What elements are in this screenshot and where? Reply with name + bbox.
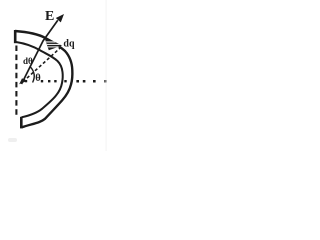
theta angle arc at center: [30, 67, 34, 83]
vertical dashed line (axis): [15, 46, 17, 117]
svg-text:dθ: dθ: [23, 56, 33, 66]
outer arc of charged ring: [15, 31, 72, 127]
top end cap of arc: [14, 30, 17, 43]
svg-text:θ: θ: [35, 73, 41, 84]
horizontal dotted line (axis): [25, 80, 107, 83]
faint scan smudge: [8, 138, 17, 142]
E arrow head: [56, 14, 64, 22]
svg-text:E: E: [45, 9, 54, 24]
inner arc of charged ring: [16, 42, 63, 117]
bottom end cap of arc: [20, 117, 23, 129]
lower radius line from center to dq element: [23, 45, 63, 81]
upper radius line continuing as E field arrow shaft: [22, 20, 58, 84]
hatched charge element dq on the arc: [43, 36, 63, 50]
svg-text:dq: dq: [63, 38, 75, 49]
background: [0, 0, 112, 151]
arrowhead at center end of lower radius line: [19, 78, 25, 84]
faint scan edge artifact right: [106, 0, 107, 151]
